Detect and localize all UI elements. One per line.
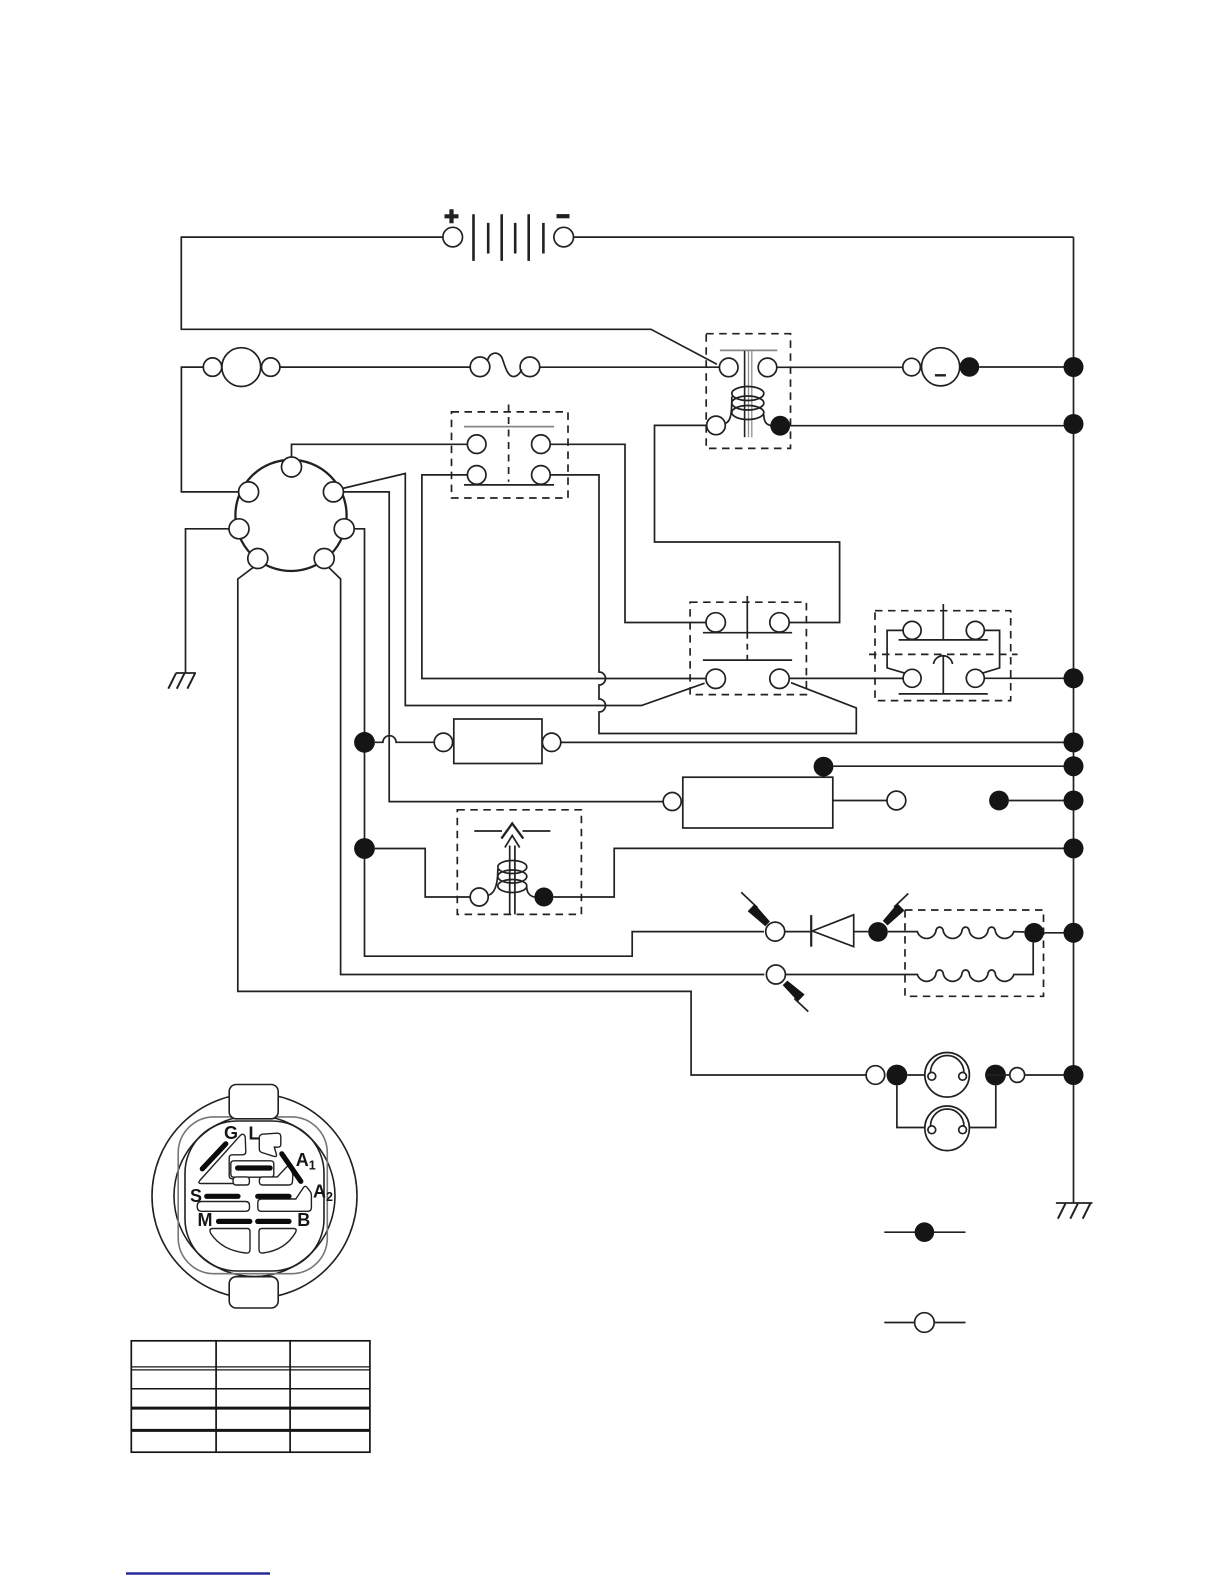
wire breaker dot to bus	[833, 765, 1073, 767]
slot centre bar	[231, 1161, 274, 1177]
stator winding 1	[888, 927, 1025, 938]
fuse holder terminal right	[542, 733, 560, 751]
junction bus/seat switch	[1064, 668, 1084, 688]
diode D1	[811, 915, 854, 947]
battery minus terminal	[554, 227, 574, 247]
battery plates	[474, 214, 529, 261]
junction bus/hour meter	[1064, 357, 1084, 377]
wire diode to dot	[854, 931, 869, 933]
wire fuse holder to bus	[561, 741, 1074, 743]
junction node ignition coil feed	[354, 838, 375, 859]
ignition key switch inset illustration	[152, 1085, 357, 1309]
contact bar S right	[258, 1194, 289, 1199]
connector terminal	[887, 791, 906, 810]
battery B1	[443, 209, 574, 261]
contact bar A1	[282, 1154, 301, 1182]
table of switch positions	[131, 1341, 370, 1452]
connector arrow 3	[783, 981, 809, 1012]
wire battery minus to right bus	[574, 236, 1074, 238]
wire ignition A1 pin diagonal to interlock lower left	[342, 474, 704, 706]
svg-text:B: B	[297, 1210, 310, 1230]
junction bus/stator	[1064, 923, 1084, 943]
contact bar M right	[258, 1219, 289, 1224]
ignition switch S2 body	[235, 460, 346, 571]
wire ignition M pin to headlamps	[238, 567, 866, 1075]
fuse F1	[470, 353, 540, 376]
svg-text:M: M	[198, 1210, 213, 1230]
headlight switch S1	[452, 405, 569, 499]
headlamp terminal	[866, 1066, 885, 1085]
headlamp junction dot right	[985, 1065, 1006, 1086]
junction bus/solenoid	[1064, 414, 1084, 434]
accessory terminal dot	[989, 791, 1009, 811]
slot bottom right fan	[259, 1229, 296, 1254]
circuit breaker CB1	[663, 777, 833, 828]
wire ignition A1 pin to circuit breaker	[343, 492, 663, 802]
wire circle to diode	[785, 931, 811, 933]
ignition pin L	[282, 457, 302, 477]
circuit breaker terminal dot	[814, 757, 834, 777]
bus side lamp terminal	[1010, 1068, 1025, 1083]
ignition pin A2	[334, 519, 354, 539]
slot top right	[259, 1133, 281, 1156]
wire fuse to solenoid	[540, 366, 720, 368]
headlamp HL2	[897, 1085, 996, 1150]
ignition pin left	[229, 519, 249, 539]
contact bar S left	[207, 1194, 238, 1199]
slot mid right chevron	[233, 1177, 249, 1185]
wire node to ignition coil	[375, 849, 470, 898]
magneto kill terminal	[766, 922, 785, 941]
solenoid battery terminal (filled)	[770, 416, 790, 436]
slot G-L triangle	[199, 1134, 247, 1183]
ignition pin A1	[323, 482, 343, 502]
contact bar M left	[219, 1219, 250, 1224]
stator winding 2	[785, 943, 1033, 982]
svg-text:G: G	[224, 1123, 238, 1143]
slot bottom left fan	[210, 1229, 250, 1254]
connector arrow 1	[741, 892, 770, 926]
wire ignition L pin to headlight switch	[292, 444, 468, 457]
key switch inner ring	[174, 1116, 335, 1277]
ground chassis right	[1056, 1203, 1093, 1219]
wire solenoid battery terminal to bus	[790, 425, 1074, 427]
fuse holder terminal	[434, 733, 452, 751]
junction bus/accessory	[1064, 791, 1084, 811]
wire ammeter to fuse	[280, 366, 470, 368]
solenoid coil	[725, 397, 732, 424]
seat switch S4	[869, 604, 1018, 701]
svg-text:A: A	[296, 1150, 309, 1170]
wire solenoid to hour meter	[777, 366, 903, 368]
fuse holder block	[454, 719, 542, 764]
wire battery plus to ignition feed	[181, 237, 717, 364]
wire seat switch to bus	[984, 677, 1073, 679]
hour meter M2	[903, 348, 979, 386]
svg-text:A: A	[313, 1182, 326, 1202]
legend junction symbol	[884, 1222, 965, 1242]
contact bar G	[202, 1144, 226, 1169]
svg-text:1: 1	[309, 1159, 316, 1173]
key switch bottom tab	[229, 1277, 278, 1308]
svg-text:2: 2	[326, 1190, 333, 1204]
connector arrow 2	[883, 894, 909, 926]
alternator stator box	[905, 910, 1044, 996]
wire headlight switch low terminal to interlock (via x=421.9)	[422, 475, 706, 679]
magneto terminal dot	[868, 922, 888, 942]
ignition pin S	[314, 549, 334, 569]
key switch face	[185, 1121, 324, 1271]
wire hour meter to bus	[979, 366, 1073, 368]
junction bus/breaker	[1064, 756, 1084, 776]
right ground bus wire	[1073, 237, 1075, 1203]
wire ignition S pin to magneto row	[329, 567, 765, 974]
headlamp HL1	[907, 1053, 969, 1098]
key switch top tab	[229, 1085, 278, 1119]
label +	[445, 209, 459, 223]
wire headlight switch to brake interlock	[550, 444, 706, 622]
svg-text:S: S	[190, 1186, 202, 1206]
stator junction dot	[1024, 923, 1044, 943]
wire ignition left pin to ground	[186, 529, 230, 673]
starter solenoid K1	[706, 334, 790, 449]
junction node ignition A2 feed	[354, 732, 375, 753]
junction bus/coil	[1064, 838, 1084, 858]
svg-text:L: L	[249, 1124, 260, 1144]
brake/clutch interlock switch S3	[690, 596, 806, 695]
headlamp junction dot left	[887, 1065, 908, 1086]
ignition pin G	[239, 482, 259, 502]
junction bus/fuse holder	[1064, 732, 1084, 752]
battery plus terminal	[443, 227, 463, 247]
junction bus/headlamps	[1064, 1065, 1084, 1085]
wire accessory dot to bus	[1009, 800, 1074, 802]
contact bar centre	[238, 1165, 271, 1170]
magneto lighting terminal	[766, 965, 785, 984]
wire headlight switch to interlock lower right (hops two wires)	[550, 475, 856, 734]
ground chassis left	[168, 673, 196, 689]
wire breaker to connector	[833, 800, 887, 802]
legend terminal symbol	[884, 1313, 965, 1333]
wire stator to bus	[1044, 932, 1074, 934]
wire ignition coil to bus	[553, 848, 1073, 897]
key switch outer ring	[152, 1094, 357, 1299]
wire interlock to seat switch	[789, 677, 903, 679]
slot S row lower right	[258, 1186, 312, 1211]
key switch mounting plate	[178, 1117, 327, 1274]
wire ignition A2 pin down (ignition unit feed)	[354, 529, 764, 956]
ignition pin M	[248, 549, 268, 569]
ammeter M1	[203, 348, 280, 387]
ignition coil / spark unit T1	[457, 810, 581, 915]
wire solenoid coil to brake interlock	[655, 425, 840, 622]
wire ammeter to ignition switch pin	[181, 367, 238, 492]
wire to bus terminal	[985, 1074, 1073, 1076]
solenoid coil terminal S	[707, 416, 726, 435]
label -	[557, 214, 570, 218]
footer rule	[126, 1572, 270, 1575]
slot S row lower left	[197, 1202, 249, 1212]
wire node to fuse holder (hops over breaker wire)	[375, 736, 434, 743]
